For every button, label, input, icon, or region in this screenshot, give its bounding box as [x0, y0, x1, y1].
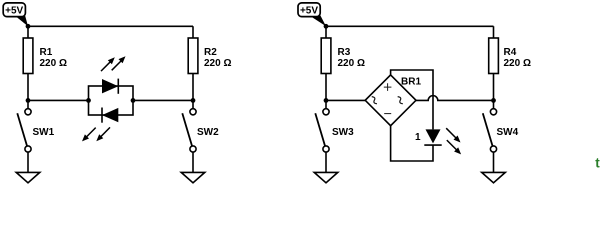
svg-text:220 Ω: 220 Ω — [40, 58, 67, 69]
svg-text:+5V: +5V — [5, 6, 23, 17]
svg-text:1: 1 — [415, 132, 421, 143]
svg-text:220 Ω: 220 Ω — [338, 58, 365, 69]
svg-text:R4: R4 — [504, 47, 517, 58]
svg-text:+5V: +5V — [300, 6, 318, 17]
svg-text:SW2: SW2 — [197, 127, 219, 138]
svg-text:t: t — [595, 156, 600, 171]
svg-text:R1: R1 — [40, 47, 53, 58]
svg-text:R3: R3 — [338, 47, 351, 58]
svg-text:220 Ω: 220 Ω — [204, 58, 231, 69]
svg-text:SW1: SW1 — [33, 127, 55, 138]
svg-text:220 Ω: 220 Ω — [504, 58, 531, 69]
svg-text:SW3: SW3 — [332, 127, 354, 138]
svg-text:BR1: BR1 — [401, 77, 421, 88]
svg-text:R2: R2 — [204, 47, 217, 58]
svg-text:SW4: SW4 — [497, 127, 519, 138]
